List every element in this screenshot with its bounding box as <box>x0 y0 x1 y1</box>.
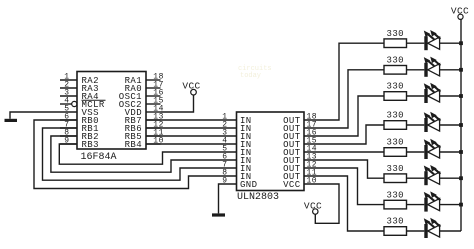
IC U1 16F84A body <box>77 72 146 150</box>
U2 pin number 4 <box>222 137 227 146</box>
svg-text:330: 330 <box>387 138 404 148</box>
value label R1 330 <box>387 29 404 39</box>
U2 pin number 9 <box>222 177 227 186</box>
wire RB0 to U2 IN8 <box>34 120 237 189</box>
U1 pin number 16 <box>153 89 164 98</box>
ground symbol U2 <box>212 213 225 216</box>
wire RB1 to U2 IN7 <box>43 128 237 180</box>
U2 pin 14 label OUT <box>283 148 301 158</box>
U1 pin 16 label OSC1 <box>119 92 142 102</box>
wire U2 OUT8 to row 8 <box>304 176 384 231</box>
U2 pin number 10 <box>307 177 318 186</box>
faint watermark <box>238 65 272 80</box>
svg-text:330: 330 <box>387 217 404 227</box>
junction dot row 3 <box>459 94 463 98</box>
resistor R7 330 <box>384 200 407 209</box>
U2 pin number 5 <box>222 145 227 154</box>
wire U2 OUT6 to row 6 <box>304 160 384 178</box>
U1 pin number 18 <box>153 73 164 82</box>
wire R5 to D5 <box>407 151 425 153</box>
U1 pin 5 label VSS <box>82 108 99 118</box>
resistor R8 330 <box>384 227 407 236</box>
label U1 16F84A <box>81 152 117 163</box>
U1 pin number 4 <box>64 97 69 106</box>
wire RB5 to U2 IN3 <box>146 135 237 137</box>
U1 pin number 3 <box>64 89 69 98</box>
wire U2 OUT7 to row 7 <box>304 168 384 205</box>
U2 pin number 15 <box>307 137 318 146</box>
U1 pin 9 stub <box>60 143 77 145</box>
power VCC U1 <box>182 81 200 95</box>
U1 pin number 6 <box>64 113 69 122</box>
value label R3 330 <box>387 82 404 92</box>
U2 pin 7 label IN <box>240 164 252 174</box>
U2 pin 9 label GND <box>240 180 257 190</box>
ground symbol left <box>5 119 18 122</box>
U1 pin 18 label RA1 <box>125 76 142 86</box>
wire D4 to rail <box>440 124 461 126</box>
svg-text:330: 330 <box>387 190 404 200</box>
U1 pin 12 label RB6 <box>125 124 142 134</box>
U1 pin number 1 <box>64 73 69 82</box>
wire U2 OUT5 to R5 <box>304 151 384 153</box>
U2 pin 8 label IN <box>240 172 252 182</box>
U1 pin 14 stub <box>146 111 161 113</box>
LED D3 <box>424 83 441 103</box>
U1 pin 16 stub <box>146 95 161 97</box>
wire D1 to rail <box>440 42 461 44</box>
resistor R6 330 <box>384 174 407 183</box>
value label R6 330 <box>387 164 404 174</box>
svg-text:16F84A: 16F84A <box>81 152 117 163</box>
U2 pin 4 label IN <box>240 140 252 150</box>
wire VSS to ground <box>10 112 60 119</box>
U2 pin 3 label IN <box>240 132 252 142</box>
svg-text:330: 330 <box>387 56 404 66</box>
U1 pin number 14 <box>153 105 164 114</box>
resistor R3 330 <box>384 92 407 101</box>
U1 pin 17 stub <box>146 87 161 89</box>
svg-text:VCC: VCC <box>283 180 301 190</box>
wire R4 to D4 <box>407 124 425 126</box>
wire R7 to D7 <box>407 204 425 206</box>
label U2 ULN2803 <box>237 192 279 203</box>
junction dot row 6 <box>459 176 463 180</box>
LED D5 <box>424 139 441 159</box>
wire R8 to D8 <box>407 230 425 232</box>
U1 pin 3 stub <box>60 95 77 97</box>
U2 pin number 1 <box>222 113 227 122</box>
value label R2 330 <box>387 56 404 66</box>
svg-text:VCC: VCC <box>451 6 469 17</box>
U2 pin number 6 <box>222 153 227 162</box>
wire D2 to rail <box>440 69 461 71</box>
U1 pin 11 label RB5 <box>125 132 142 142</box>
wire R2 to D2 <box>407 69 425 71</box>
LED D6 <box>424 165 441 185</box>
U1 pin number 11 <box>153 129 164 138</box>
U1 pin 6 label RB0 <box>82 116 99 126</box>
svg-text:330: 330 <box>387 164 404 174</box>
U2 pin number 13 <box>307 153 318 162</box>
wire RB2 to U2 IN6 <box>51 136 237 172</box>
wire D5 to rail <box>440 151 461 153</box>
U1 pin 12 stub <box>146 127 161 129</box>
U1 pin 17 label RA0 <box>125 84 142 94</box>
wire D3 to rail <box>440 95 461 97</box>
U1 pin 8 label RB2 <box>82 132 99 142</box>
svg-text:RB4: RB4 <box>125 140 142 150</box>
wire D8 to rail <box>440 230 461 232</box>
wire U2 OUT1 to row 1 <box>304 43 384 120</box>
svg-text:GND: GND <box>240 180 257 190</box>
U1 pin number 9 <box>64 137 69 146</box>
U2 pin 1 label IN <box>240 116 252 126</box>
wire R1 to D1 <box>407 42 425 44</box>
value label R8 330 <box>387 217 404 227</box>
U2 pin 18 label OUT <box>283 116 301 126</box>
U1 pin 2 label RA3 <box>82 84 99 94</box>
wire U2 GND <box>219 184 237 213</box>
value label R5 330 <box>387 138 404 148</box>
wire D7 to rail <box>440 204 461 206</box>
power VCC rail <box>451 6 469 20</box>
U2 pin number 12 <box>307 161 318 170</box>
junction dot row 4 <box>459 123 463 127</box>
junction dot row 2 <box>459 68 463 72</box>
value label R7 330 <box>387 190 404 200</box>
power VCC U2 <box>304 200 322 214</box>
svg-text:ULN2803: ULN2803 <box>237 192 279 203</box>
resistor R5 330 <box>384 148 407 157</box>
U1 pin 4 label MCLR <box>82 100 106 110</box>
U1 pin 10 stub <box>146 143 161 145</box>
wire RB4 to U2 IN4 <box>146 143 237 145</box>
U1 pin 14 label VDD <box>125 108 142 118</box>
wire U2 OUT2 to row 2 <box>304 70 384 128</box>
U1 pin 7 stub <box>60 127 77 129</box>
LED D2 <box>424 57 441 77</box>
U1 pin 4 stub MCLR <box>60 101 77 106</box>
LED D7 <box>424 191 441 211</box>
U1 pin number 8 <box>64 129 69 138</box>
U2 pin 2 label IN <box>240 124 252 134</box>
LED D8 <box>424 218 441 238</box>
U1 pin 1 stub <box>60 79 77 81</box>
svg-text:VCC: VCC <box>182 81 200 92</box>
resistor R1 330 <box>384 39 407 48</box>
U2 pin number 8 <box>222 169 227 178</box>
svg-text:330: 330 <box>387 29 404 39</box>
U2 pin number 16 <box>307 129 318 138</box>
U1 pin 8 stub <box>60 135 77 137</box>
resistor R4 330 <box>384 121 407 130</box>
svg-text:RB3: RB3 <box>82 140 99 150</box>
U2 pin number 7 <box>222 161 227 170</box>
U1 pin number 15 <box>153 97 164 106</box>
wire R6 to D6 <box>407 177 425 179</box>
svg-text:330: 330 <box>387 111 404 121</box>
resistor R2 330 <box>384 66 407 75</box>
LED D1 <box>424 30 441 50</box>
U2 pin 12 label OUT <box>283 164 301 174</box>
U2 pin number 14 <box>307 145 318 154</box>
U1 pin 3 label RA4 <box>82 92 99 102</box>
U2 pin 15 label OUT <box>283 140 301 150</box>
U1 pin 1 label RA2 <box>82 76 99 86</box>
svg-text:VCC: VCC <box>304 200 322 211</box>
U2 pin number 18 <box>307 113 318 122</box>
U1 pin number 7 <box>64 121 69 130</box>
U2 pin number 2 <box>222 121 227 130</box>
U2 pin 17 label OUT <box>283 124 301 134</box>
U2 pin 13 label OUT <box>283 156 301 166</box>
U1 pin 2 stub <box>60 87 77 89</box>
U1 pin 18 stub <box>146 79 161 81</box>
wire RB7 to U2 IN1 <box>146 119 237 121</box>
wire U2 OUT3 to row 3 <box>304 96 384 136</box>
U2 pin number 3 <box>222 129 227 138</box>
wire D6 to rail <box>440 177 461 179</box>
wire RB3 to U2 IN5 <box>59 144 236 164</box>
U1 pin number 17 <box>153 81 164 90</box>
U1 pin 7 label RB1 <box>82 124 99 134</box>
U2 pin 11 label OUT <box>283 172 301 182</box>
wire R3 to D3 <box>407 95 425 97</box>
U2 pin 10 label VCC <box>283 180 301 190</box>
wire VCC rail <box>460 20 462 232</box>
wire U2 OUT4 to row 4 <box>304 125 384 144</box>
U1 pin number 13 <box>153 113 164 122</box>
wire U2 pin10 to VCC <box>304 184 339 223</box>
junction dot row 7 <box>459 203 463 207</box>
U1 pin 15 stub <box>146 103 161 105</box>
U1 pin number 2 <box>64 81 69 90</box>
LED D4 <box>424 112 441 132</box>
U1 pin 15 label OSC2 <box>119 100 142 110</box>
U2 pin 5 label IN <box>240 148 252 158</box>
U2 pin 6 label IN <box>240 156 252 166</box>
U1 pin 13 stub <box>146 119 161 121</box>
U2 pin number 11 <box>307 169 318 178</box>
U1 pin 9 label RB3 <box>82 140 99 150</box>
U2 pin number 17 <box>307 121 318 130</box>
U1 pin 13 label RB7 <box>125 116 142 126</box>
U1 pin number 10 <box>153 137 164 146</box>
U1 pin 6 stub <box>60 119 77 121</box>
wire RB6 to U2 IN2 <box>146 127 237 129</box>
U1 pin 5 stub <box>60 111 77 113</box>
U1 pin number 12 <box>153 121 164 130</box>
value label R4 330 <box>387 111 404 121</box>
svg-text:330: 330 <box>387 82 404 92</box>
U1 pin number 5 <box>64 105 69 114</box>
U1 pin 10 label RB4 <box>125 140 142 150</box>
junction dot row 5 <box>459 150 463 154</box>
U1 pin 11 stub <box>146 135 161 137</box>
junction dot row 1 <box>459 41 463 45</box>
IC U2 ULN2803 body <box>237 112 305 191</box>
svg-text:today: today <box>240 72 261 80</box>
U2 pin 16 label OUT <box>283 132 301 142</box>
wire VDD to VCC <box>161 95 194 112</box>
